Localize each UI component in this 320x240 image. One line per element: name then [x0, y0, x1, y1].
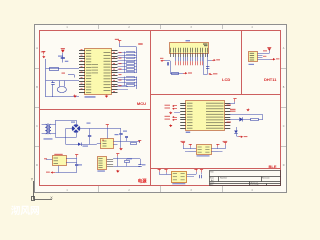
svg-text:沏风网: 沏风网 — [11, 205, 40, 217]
svg-text:C: C — [283, 125, 285, 128]
svg-text:Revision: Revision — [262, 177, 270, 179]
svg-text:电源: 电源 — [138, 177, 147, 184]
svg-text:C: C — [36, 125, 38, 128]
svg-text:LCD: LCD — [222, 77, 230, 82]
svg-text:MCU: MCU — [137, 101, 146, 106]
svg-text:BLE: BLE — [269, 164, 277, 169]
svg-text:D: D — [283, 164, 285, 167]
svg-text:Drawn By:: Drawn By: — [251, 183, 260, 186]
svg-text:D: D — [36, 164, 38, 167]
svg-text:File:: File: — [210, 184, 214, 186]
svg-text:Number: Number — [220, 177, 227, 179]
svg-text:DHT11: DHT11 — [264, 77, 277, 82]
